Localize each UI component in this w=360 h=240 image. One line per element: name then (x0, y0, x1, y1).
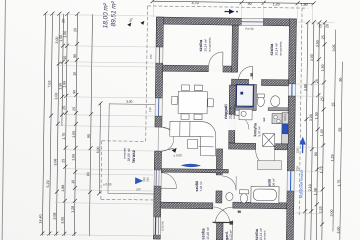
label szoba bottom-right (254, 228, 267, 240)
left wall seg 6 (153, 235, 160, 239)
terrace dim 6,00 (99, 103, 100, 193)
right extension lines (295, 22, 335, 213)
sofa L-shape (170, 121, 216, 156)
right chain ticks (303, 20, 327, 226)
ottoman (188, 139, 198, 148)
window top (Pw 90) (241, 18, 263, 31)
shower cabin (236, 85, 253, 107)
left wall seg 3 (155, 116, 162, 127)
right wall seg 1 (289, 19, 297, 84)
left wall seg 2 (155, 63, 162, 98)
wall H4 service/bath (229, 143, 256, 149)
left wall seg 5 (154, 186, 161, 217)
chain line (62, 14, 64, 126)
door bath (222, 176, 236, 190)
bath sink (226, 193, 233, 201)
kitchen table X (263, 134, 275, 147)
terrace outline bottom (108, 192, 154, 195)
left extension lines (42, 14, 155, 236)
window left bottom room (153, 217, 160, 235)
top dimension numbers (192, 1, 308, 7)
chain line (56, 14, 59, 236)
door top-left szoba (209, 52, 223, 69)
right wall seg 2 (287, 96, 295, 171)
label szuloi (195, 181, 203, 192)
terrace level marker -0,02 (103, 177, 143, 192)
wall H2 below top-right szoba (231, 79, 248, 85)
chain line (89, 14, 92, 236)
chain line (322, 22, 325, 240)
kitchen counter (272, 113, 289, 144)
top extension lines (153, 1, 312, 22)
label gardrob (225, 230, 233, 240)
sheet left edge (2, 0, 5, 240)
chairs (181, 85, 189, 91)
eaves dashed across terrace (102, 140, 146, 143)
chain line (49, 14, 52, 236)
dining table (178, 91, 207, 113)
small tick texts near openings (160, 112, 287, 233)
right chain numbers (58, 19, 343, 234)
bath toilet with tank (239, 190, 248, 203)
double door bottom rooms (212, 207, 241, 240)
wall H5 bottom (161, 202, 213, 209)
left chain ticks (40, 11, 94, 236)
level marker 2 (140, 21, 144, 25)
window right lower (blue) (287, 171, 294, 191)
door top-right szoba (239, 66, 254, 80)
chain line 14,40 (42, 13, 45, 235)
level marker 101 (127, 23, 131, 27)
wall V2 nappali/service (229, 85, 236, 143)
glazed door szuloi (left wall lower) (142, 170, 177, 188)
terrace outline top (109, 103, 155, 106)
label szoba top-right (269, 41, 283, 56)
right wall seg 3 (286, 191, 294, 240)
door nappali/corridor (232, 115, 249, 130)
window left upper (149, 47, 163, 63)
left wall seg 1 (156, 17, 163, 47)
eaves dashed outline top (148, 6, 308, 8)
label konyha (253, 122, 261, 136)
label szoba top-left (198, 37, 212, 52)
eaves dashed outline left (146, 6, 148, 141)
chain line (305, 22, 308, 240)
terrace outline left (108, 103, 109, 193)
terrace door (double) left wall (158, 127, 174, 151)
blue sliding door nappali/szuloi (180, 164, 200, 171)
wall H6 nappali/szuloi (161, 169, 228, 173)
window right upper (blue) (288, 84, 295, 96)
sink bath (271, 96, 280, 107)
label nappali (223, 104, 236, 119)
top wall right segment (263, 19, 296, 26)
left wall seg 4 (154, 151, 161, 170)
right partial chain lines (333, 30, 343, 240)
wall V1 between szobas (232, 25, 239, 72)
window left lower (148, 98, 162, 116)
washing machine (239, 109, 252, 120)
wall V3 bath left (216, 149, 222, 175)
thin partition H3 (235, 84, 288, 111)
chain line (316, 22, 319, 240)
left chain numbers (39, 27, 93, 224)
bathtub (251, 186, 279, 203)
eaves dashed outline right (299, 8, 302, 215)
bath counter top (257, 160, 281, 169)
chain line (64, 14, 67, 236)
partition shower/bath (253, 84, 256, 110)
nappali level marker +-0,00 (171, 148, 182, 158)
entrance arrow (224, 9, 237, 14)
door corridor/bottom hall arc (255, 149, 274, 168)
blue up arrow (299, 137, 306, 154)
label szoba bottom-left (200, 227, 210, 240)
chain line (311, 22, 314, 240)
wc toilet (257, 96, 264, 106)
label furdo (268, 178, 276, 188)
chain line (74, 14, 77, 236)
top wall left segment (156, 17, 241, 25)
eaves dashed terrace bottom (101, 198, 154, 201)
wall V4 bottom rooms (216, 223, 223, 240)
eaves dashed terrace left (100, 141, 103, 199)
wall H1 szoba/nappali (163, 65, 209, 72)
top chain line (153, 1, 314, 3)
